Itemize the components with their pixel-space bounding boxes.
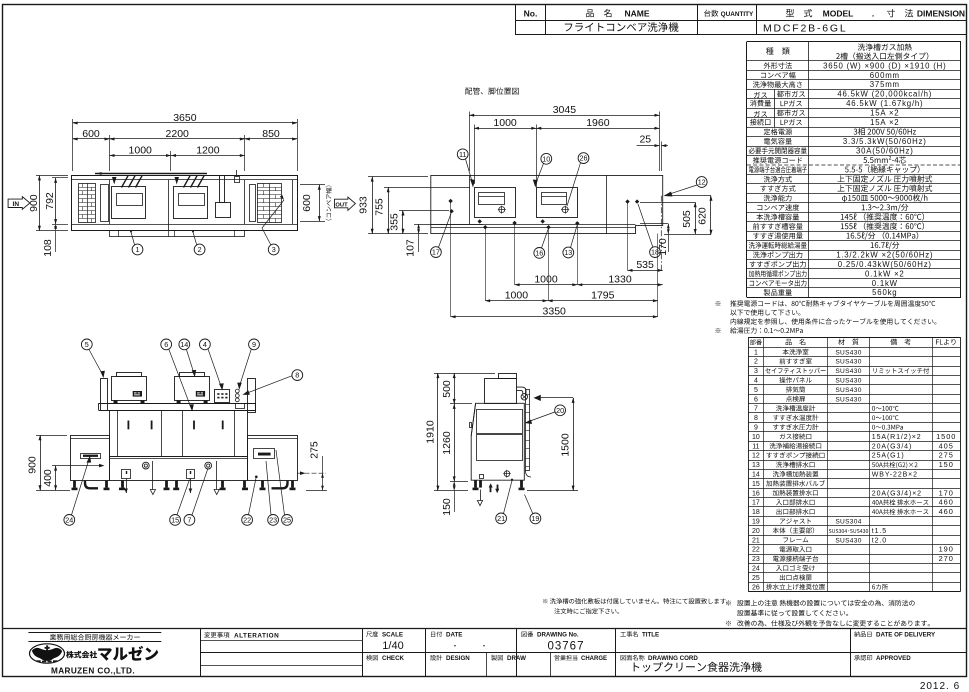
svg-text:5: 5 (754, 387, 758, 394)
svg-text:1260: 1260 (441, 431, 453, 455)
svg-text:1960: 1960 (586, 117, 610, 129)
svg-text:900: 900 (27, 456, 39, 474)
svg-text:13: 13 (564, 248, 572, 257)
hood body (110, 411, 248, 457)
balloon 5 (81, 339, 92, 350)
balloon 4 (200, 339, 211, 350)
svg-text:20A(G3/4): 20A(G3/4) (872, 443, 912, 450)
piping body (431, 175, 663, 233)
dim 500 (450, 403, 472, 405)
svg-text:21: 21 (752, 537, 760, 544)
drop lines (450, 201, 452, 317)
svg-text:2200: 2200 (166, 128, 190, 140)
spec table (747, 41, 961, 43)
maruzen logo (28, 632, 161, 634)
svg-text:400: 400 (42, 469, 54, 487)
svg-text:1: 1 (754, 349, 758, 356)
dim 1000/1330 (515, 284, 578, 286)
svg-text:03767: 03767 (548, 641, 585, 653)
svg-text:DESIGN: DESIGN (446, 655, 470, 662)
svg-text:15A ×2: 15A ×2 (870, 118, 899, 127)
balloon 25 (282, 515, 293, 526)
svg-text:ALTERATION: ALTERATION (234, 632, 279, 639)
svg-text:107: 107 (405, 239, 417, 257)
svg-text:IN: IN (13, 201, 20, 208)
svg-text:20: 20 (556, 406, 564, 415)
svg-text:10: 10 (542, 154, 550, 163)
svg-text:25A(G1): 25A(G1) (872, 453, 905, 460)
balloon 22 (242, 515, 253, 526)
side chimney (499, 374, 517, 379)
svg-text:1: 1 (136, 245, 140, 254)
svg-text:.: . (872, 9, 874, 19)
svg-text:MARUZEN CO.,LTD.: MARUZEN CO.,LTD. (51, 667, 135, 676)
svg-text:23: 23 (752, 556, 760, 563)
balloon 18 (650, 247, 661, 258)
svg-text:22: 22 (752, 547, 760, 554)
svg-text:4: 4 (203, 340, 207, 349)
dim 600/2200/850 (109, 135, 111, 171)
svg-text:OUT: OUT (335, 202, 348, 208)
svg-text:460: 460 (939, 507, 954, 516)
svg-text:3350: 3350 (543, 306, 567, 318)
balloon 2 (193, 232, 197, 245)
dim 1260 (450, 481, 468, 483)
svg-text:1500: 1500 (936, 432, 956, 441)
dim 1000/1960 (474, 125, 476, 185)
svg-text:CHARGE: CHARGE (581, 656, 607, 662)
balloon 19 (530, 513, 541, 524)
svg-text:1200: 1200 (196, 144, 220, 156)
side body (471, 403, 524, 480)
notes1 (716, 301, 721, 306)
svg-text:・: ・ (452, 643, 459, 650)
svg-text:t1.5: t1.5 (872, 528, 887, 535)
svg-text:SUS430: SUS430 (835, 396, 861, 403)
balloon 24 (64, 515, 75, 526)
svg-text:DIMENSION: DIMENSION (917, 9, 965, 19)
svg-text:0.25/0.43kW(50/60Hz): 0.25/0.43kW(50/60Hz) (838, 260, 932, 269)
balloon 8 (292, 370, 303, 381)
svg-text:10: 10 (752, 434, 760, 441)
svg-text:1330: 1330 (608, 274, 632, 286)
side heater (485, 379, 517, 404)
svg-text:1.3/2.2kW ×2(50/60Hz): 1.3/2.2kW ×2(50/60Hz) (836, 251, 933, 260)
side arrow left (534, 395, 541, 401)
svg-text:25: 25 (639, 134, 651, 146)
dim 3650 (72, 119, 74, 171)
exhaust duct left (101, 379, 108, 411)
svg-text:270: 270 (939, 554, 954, 563)
svg-text:9: 9 (252, 340, 256, 349)
heater box 1 (112, 377, 147, 401)
plan valve (235, 177, 240, 183)
dim 150 (454, 491, 456, 512)
svg-text:・: ・ (481, 643, 488, 650)
dim 3045 (469, 112, 471, 172)
svg-text:SUS430: SUS430 (835, 378, 861, 385)
svg-text:3650 (W) ×900 (D) ×1910 (H): 3650 (W) ×900 (D) ×1910 (H) (823, 61, 946, 70)
svg-text:30A(50/60Hz): 30A(50/60Hz) (856, 146, 914, 155)
dim 1500 (527, 490, 578, 492)
svg-text:23: 23 (269, 516, 277, 525)
header table (516, 34, 967, 36)
svg-text:CHECK: CHECK (382, 655, 405, 662)
svg-text:8: 8 (754, 415, 758, 422)
balloon 11 (457, 149, 468, 160)
svg-text:600: 600 (301, 194, 313, 212)
svg-text:1000: 1000 (493, 117, 517, 129)
svg-text:1/40: 1/40 (382, 640, 403, 652)
dim 355 (399, 210, 449, 212)
side drain (504, 471, 510, 477)
heater box 2 (175, 377, 210, 401)
svg-text:405: 405 (939, 441, 954, 450)
svg-text:19: 19 (531, 514, 539, 523)
piping chamber1 (475, 188, 516, 218)
svg-text:NAME: NAME (624, 9, 649, 19)
balloon 20 (555, 405, 566, 416)
svg-text:20: 20 (752, 528, 760, 535)
OUT arrow (335, 197, 356, 210)
svg-text:20A(G3/4)×2: 20A(G3/4)×2 (872, 490, 922, 497)
balloon 15 (170, 515, 181, 526)
alteration block (200, 640, 362, 642)
svg-text:QUANTITY: QUANTITY (721, 11, 754, 18)
svg-text:26: 26 (580, 154, 588, 163)
svg-text:18: 18 (752, 509, 760, 516)
svg-text:16: 16 (752, 490, 760, 497)
svg-text:1000: 1000 (534, 274, 558, 286)
dim 505 (640, 202, 695, 204)
dim 275 (298, 472, 327, 474)
svg-text:46.5kW (20,000kcal/h): 46.5kW (20,000kcal/h) (837, 90, 932, 99)
svg-text:22: 22 (243, 516, 251, 525)
svg-text:792: 792 (44, 192, 56, 210)
svg-text:3.3/5.3kW(50/60Hz): 3.3/5.3kW(50/60Hz) (843, 137, 927, 146)
balloon 3 (262, 228, 271, 245)
svg-text:460: 460 (939, 498, 954, 507)
balloon 6 (161, 339, 172, 350)
dim 755 (384, 187, 470, 189)
shelf (99, 403, 255, 405)
svg-text:15A ×2: 15A ×2 (870, 109, 899, 118)
svg-text:4: 4 (754, 378, 758, 385)
svg-text:11: 11 (752, 443, 759, 450)
sensors (235, 389, 239, 393)
control panel (215, 390, 230, 403)
svg-text:6: 6 (754, 396, 758, 403)
svg-text:No.: No. (524, 9, 538, 19)
side rail (526, 390, 530, 471)
svg-text:3650: 3650 (173, 112, 197, 124)
drain arrows (152, 461, 154, 490)
balloon 14 (179, 339, 190, 350)
balloon 23 (268, 515, 279, 526)
svg-text:SUS430: SUS430 (835, 368, 861, 375)
svg-text:SUS304: SUS304 (835, 519, 861, 526)
plan curtain right (258, 184, 282, 223)
svg-text:275: 275 (309, 441, 321, 459)
svg-text:375mm: 375mm (870, 80, 900, 89)
svg-text:505: 505 (681, 210, 693, 228)
svg-text:25: 25 (283, 516, 291, 525)
balloon 12 (696, 177, 707, 188)
svg-text:3045: 3045 (553, 104, 577, 116)
svg-text:17: 17 (752, 500, 760, 507)
plan pipes (95, 173, 207, 175)
parts table (748, 337, 960, 339)
balloon 1 (131, 232, 135, 245)
svg-text:1910: 1910 (425, 420, 437, 444)
IN arrow (8, 197, 30, 210)
balloon 10 (541, 153, 552, 164)
svg-text:17: 17 (432, 248, 440, 257)
svg-text:355: 355 (389, 213, 401, 231)
svg-text:14: 14 (180, 340, 188, 349)
svg-text:8: 8 (295, 371, 299, 380)
dim 900 (36, 175, 68, 177)
svg-text:620: 620 (696, 207, 708, 225)
svg-text:150: 150 (441, 498, 453, 516)
dim 1910 (434, 373, 495, 375)
svg-text:850: 850 (262, 128, 280, 140)
plan chamber1 (112, 187, 146, 219)
svg-text:1795: 1795 (591, 290, 615, 302)
base body (110, 457, 248, 481)
svg-text:5: 5 (85, 340, 89, 349)
dim 108 (55, 231, 57, 252)
svg-text:150: 150 (939, 460, 954, 469)
svg-text:11: 11 (459, 150, 466, 159)
svg-text:2012. 6: 2012. 6 (920, 681, 960, 692)
svg-text:TITLE: TITLE (642, 632, 659, 639)
balloon 17 (431, 247, 442, 258)
side elbow (516, 387, 526, 394)
dim 933 (368, 176, 428, 178)
svg-text:19: 19 (752, 519, 760, 526)
svg-text:2: 2 (754, 359, 758, 366)
dim 170 (640, 223, 668, 225)
svg-text:DRAWING No.: DRAWING No. (537, 632, 579, 639)
svg-text:16: 16 (535, 249, 543, 258)
svg-text:24: 24 (65, 516, 73, 525)
exit table (248, 436, 298, 481)
dim 600 conveyor (300, 184, 325, 186)
drain hoses (85, 481, 98, 489)
plan stack (220, 176, 225, 203)
piping view title (465, 87, 518, 94)
pipe points (448, 199, 452, 203)
svg-text:MDCF2B-6GL: MDCF2B-6GL (763, 23, 848, 35)
side arrows (490, 485, 492, 492)
balloon 26 (578, 153, 589, 164)
svg-text:0.1kW ×2: 0.1kW ×2 (865, 269, 905, 278)
balloon 21 (496, 513, 507, 524)
dim 792 (52, 177, 68, 179)
svg-text:190: 190 (939, 545, 954, 554)
svg-text:6: 6 (164, 340, 168, 349)
balloon 16 (534, 248, 545, 259)
svg-text:SUS430: SUS430 (835, 359, 861, 366)
svg-text:SUS430: SUS430 (835, 537, 861, 544)
title block (3, 628, 967, 630)
svg-text:2: 2 (198, 245, 202, 254)
svg-text:1000: 1000 (129, 144, 153, 156)
svg-text:7: 7 (754, 406, 758, 413)
plan chamber2 (174, 187, 208, 219)
svg-text:0.1kW: 0.1kW (872, 279, 898, 288)
plan curtain left (79, 184, 96, 223)
dim 107 (414, 224, 483, 226)
svg-text:1500: 1500 (560, 433, 572, 457)
svg-text:3: 3 (272, 245, 276, 254)
piping chamber2 (537, 188, 578, 218)
svg-text:933: 933 (358, 196, 370, 214)
svg-text:600mm: 600mm (870, 71, 900, 80)
balloon 13 (563, 247, 574, 258)
entrance table (71, 436, 110, 481)
svg-text:14: 14 (752, 472, 760, 479)
plan body (72, 176, 298, 231)
svg-text:25: 25 (752, 575, 760, 582)
svg-text:24: 24 (752, 566, 760, 573)
right duct (248, 379, 256, 413)
svg-text:13: 13 (752, 462, 760, 469)
svg-text:9: 9 (754, 425, 758, 432)
svg-text:t2.0: t2.0 (872, 537, 887, 544)
svg-text:3: 3 (754, 368, 758, 375)
svg-text:275: 275 (939, 451, 954, 460)
balloon 7 (184, 515, 195, 526)
svg-text:SCALE: SCALE (382, 632, 403, 639)
svg-text:500: 500 (441, 380, 453, 398)
svg-text:APPROVED: APPROVED (876, 655, 911, 662)
dim 400 (52, 465, 88, 467)
balloon 9 (249, 339, 260, 350)
dim 1000/1200 (170, 151, 172, 171)
svg-text:600: 600 (82, 128, 100, 140)
svg-text:46.5kW (1.67kg/h): 46.5kW (1.67kg/h) (846, 99, 923, 108)
svg-text:7: 7 (187, 516, 191, 525)
svg-text:DATE: DATE (446, 632, 462, 639)
svg-text:15: 15 (752, 481, 760, 488)
svg-text:MODEL: MODEL (823, 9, 854, 19)
notes2 (726, 600, 731, 605)
side legs (474, 480, 477, 487)
svg-text:WBY-22B×2: WBY-22B×2 (872, 472, 918, 479)
svg-text:21: 21 (497, 514, 505, 523)
dim 900f (36, 435, 67, 437)
svg-text:755: 755 (374, 198, 386, 216)
svg-text:DRAWING CORD: DRAWING CORD (648, 655, 698, 662)
svg-text:15: 15 (171, 516, 179, 525)
svg-text:15A(R1/2)×2: 15A(R1/2)×2 (872, 434, 922, 441)
svg-text:26: 26 (752, 584, 760, 591)
svg-text:170: 170 (939, 488, 954, 497)
svg-text:12: 12 (698, 178, 706, 187)
svg-text:560kg: 560kg (872, 288, 897, 297)
plan plinth (110, 231, 245, 237)
dim 3350 (451, 316, 658, 318)
svg-text:SUS430: SUS430 (835, 349, 861, 356)
dim 620 (672, 195, 711, 197)
svg-text:DATE OF DELIVERY: DATE OF DELIVERY (876, 632, 936, 639)
svg-text:12: 12 (752, 453, 760, 460)
svg-text:108: 108 (42, 239, 54, 257)
dim 25 (661, 142, 663, 172)
svg-text:18: 18 (651, 248, 659, 257)
svg-text:DRAW: DRAW (507, 655, 526, 662)
dim 1000/1795 (485, 300, 547, 302)
legs (73, 481, 76, 488)
svg-text:1000: 1000 (505, 290, 529, 302)
svg-text:SUS430: SUS430 (835, 387, 861, 394)
svg-text:535: 535 (636, 259, 654, 271)
dim 535 (628, 270, 663, 272)
